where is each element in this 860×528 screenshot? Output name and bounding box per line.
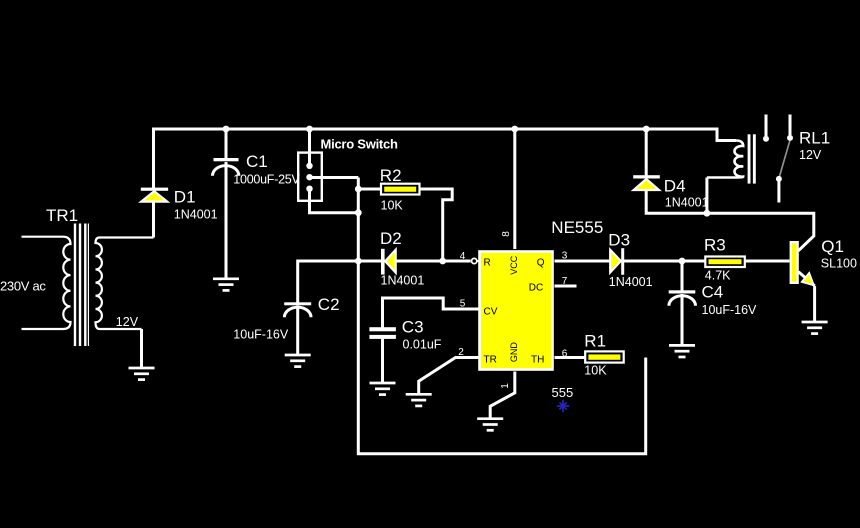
svg-text:R2: R2	[380, 166, 402, 185]
svg-text:VCC: VCC	[509, 255, 519, 275]
diode D2	[381, 249, 396, 275]
micro switch pin circles	[306, 163, 312, 192]
svg-text:4: 4	[460, 251, 466, 262]
wire switch bottom pin	[310, 190, 359, 213]
wire C3 lower stem to ground	[381, 339, 384, 384]
transistor Q1 base bar	[791, 242, 798, 283]
wire pin3 output row to Q1 base	[555, 260, 790, 263]
wire D1 anode to transformer secondary top	[152, 201, 155, 238]
resistor R2	[381, 184, 420, 195]
micro switch box	[298, 153, 322, 201]
wire Q1 emitter to ground	[813, 286, 816, 323]
wire R2 left lead	[358, 188, 381, 191]
pin 4 open circle	[472, 258, 477, 263]
part origin marker (blue cross)	[557, 400, 569, 412]
wire R2 right jog down to pin4 row	[420, 189, 453, 261]
svg-text:10uF-16V: 10uF-16V	[702, 303, 758, 317]
wire switch top pin to rail	[308, 129, 311, 166]
transistor Q1 emitter arrow	[802, 273, 814, 285]
node D4-coil-Q1	[704, 210, 711, 217]
resistor R3	[705, 257, 745, 268]
svg-text:TR1: TR1	[46, 206, 78, 225]
svg-text:6: 6	[562, 349, 568, 360]
svg-text:RL1: RL1	[799, 129, 830, 148]
wire pin6 row to R1	[555, 356, 587, 359]
svg-text:R3: R3	[704, 236, 726, 255]
svg-text:1: 1	[500, 383, 511, 389]
wire VCC pin8 to rail	[513, 129, 516, 249]
capacitor C1	[213, 158, 239, 176]
svg-text:3: 3	[562, 251, 568, 262]
wire pin2 route to ground	[419, 358, 479, 396]
svg-text:4.7K: 4.7K	[705, 269, 731, 283]
svg-text:555: 555	[552, 385, 574, 400]
diode D3	[610, 248, 624, 275]
relay RL1 coil	[707, 141, 743, 178]
svg-text:230V ac: 230V ac	[0, 279, 46, 294]
svg-text:10uF-16V: 10uF-16V	[233, 328, 289, 342]
wire vertical bus, bottom rail, up to R1 right	[358, 178, 645, 454]
svg-text:0.01uF: 0.01uF	[403, 338, 442, 352]
node R2 left	[355, 186, 362, 193]
svg-text:5: 5	[460, 299, 466, 310]
svg-text:12V: 12V	[799, 148, 822, 162]
node D3-C4-R3	[679, 258, 686, 265]
svg-text:C3: C3	[402, 318, 424, 337]
TR1 secondary winding	[96, 238, 154, 330]
wire relay contact stub 2	[789, 115, 792, 136]
svg-text:DC: DC	[529, 283, 543, 294]
node rail-switch	[306, 126, 313, 133]
svg-text:C2: C2	[318, 295, 340, 314]
svg-text:1000uF-25V: 1000uF-25V	[233, 173, 300, 187]
TR1 core	[75, 224, 88, 347]
wire D4 cathode to rail	[645, 129, 648, 176]
svg-text:1N4001: 1N4001	[665, 196, 709, 210]
wire pin4 row from C2 corner to reset pin circle	[298, 261, 471, 303]
svg-text:Q1: Q1	[821, 237, 844, 256]
wire switch middle pin to vertical bus	[311, 176, 358, 179]
svg-text:CV: CV	[484, 306, 498, 317]
svg-text:C4: C4	[702, 283, 724, 302]
wire C4 top	[681, 261, 684, 291]
junction node dots	[223, 126, 711, 265]
svg-text:D1: D1	[174, 187, 196, 206]
svg-text:TR: TR	[484, 354, 497, 365]
svg-text:D4: D4	[664, 177, 686, 196]
wire top rail with left drop to D1 and right drop to relay coil	[154, 129, 737, 189]
capacitor C3	[369, 327, 396, 339]
node rail-VCC	[511, 126, 518, 133]
svg-text:D3: D3	[608, 231, 630, 250]
svg-text:2: 2	[458, 347, 464, 358]
svg-text:7: 7	[562, 276, 568, 287]
ground (C2)	[285, 355, 311, 367]
capacitor C4	[669, 290, 696, 305]
svg-text:C1: C1	[246, 152, 268, 171]
svg-text:Micro Switch: Micro Switch	[321, 137, 398, 152]
relay moving contact (gray)	[779, 141, 790, 177]
ground (C4)	[669, 345, 695, 357]
wire relay contact stub 1	[765, 115, 768, 137]
svg-text:D2: D2	[380, 229, 402, 248]
ground (Q1 emitter)	[802, 322, 828, 334]
node R2-pin4	[439, 258, 446, 265]
diode D1	[141, 188, 168, 202]
node C2-D2	[355, 258, 362, 265]
ground (pin 2)	[406, 394, 432, 406]
svg-text:1N4001: 1N4001	[381, 274, 425, 288]
svg-text:10K: 10K	[381, 199, 404, 213]
svg-text:8: 8	[501, 231, 512, 237]
svg-text:TH: TH	[531, 354, 544, 365]
ground (C1)	[213, 279, 239, 291]
relay contact dots	[763, 135, 793, 182]
relay core bars	[748, 134, 751, 183]
wire C4 bottom to ground	[681, 294, 684, 346]
op-amp/timer IC U1 NE555 body	[480, 252, 553, 370]
svg-text:NE555: NE555	[551, 218, 603, 237]
wire C2 lower stem to ground	[296, 306, 299, 356]
ground (pin 1)	[477, 419, 503, 431]
svg-text:R: R	[484, 257, 491, 268]
wire Q1 emitter line	[798, 272, 814, 286]
svg-text:12V: 12V	[116, 315, 139, 329]
wire D4 anode down and right to Q1 collector corner	[646, 190, 814, 251]
diode D4	[633, 175, 660, 190]
node rail-D4	[643, 126, 650, 133]
node rail-C1	[223, 126, 230, 133]
wire relay coil bottom vertical	[705, 178, 708, 214]
ground (C3)	[370, 383, 396, 395]
wire pin5 route to C3 top	[383, 298, 480, 328]
svg-text:R1: R1	[584, 332, 606, 351]
wire pin1 GND to ground	[490, 372, 515, 420]
ground (TR1 secondary)	[129, 368, 155, 380]
wire pin4 circle stub	[477, 260, 479, 262]
svg-text:SL100: SL100	[821, 257, 857, 271]
wire C1 top	[225, 129, 228, 160]
svg-text:1N4001: 1N4001	[174, 208, 218, 222]
capacitor C2	[284, 302, 311, 317]
TR1 primary winding	[22, 237, 71, 329]
wire pin7 stub	[555, 285, 577, 288]
svg-text:10K: 10K	[584, 364, 607, 378]
svg-text:GND: GND	[509, 342, 519, 363]
svg-text:Q: Q	[537, 257, 545, 268]
wire relay pole stub	[777, 182, 780, 203]
transformer TR1	[22, 237, 154, 369]
resistor R1	[585, 351, 624, 362]
TR1 secondary bottom lead to ground	[140, 329, 143, 369]
svg-text:1N4001: 1N4001	[609, 275, 653, 289]
wire C1 bottom to ground	[225, 162, 228, 279]
node switch bottom join	[355, 209, 362, 216]
